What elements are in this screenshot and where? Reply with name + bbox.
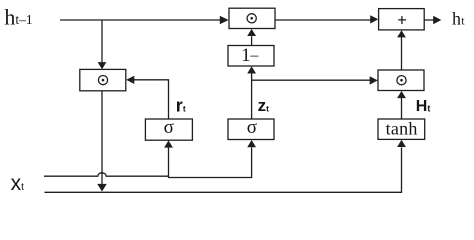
box: 1-minus: [228, 46, 274, 67]
arrowhead into sigma r-gate from below: [164, 140, 173, 147]
arrowhead into top multiply box (h from left): [220, 16, 229, 25]
wire: left multiply box output down to tanh input line: [101, 91, 103, 185]
arrowhead into right multiply box from tanh: [397, 91, 406, 98]
wire: 1-minus box up to top multiply box: [251, 36, 253, 45]
box: right elementwise multiply z*H: [378, 70, 424, 91]
wire: x(t) lower line to tanh box: [45, 147, 402, 192]
svg-text:ht–1: ht–1: [4, 4, 32, 29]
svg-text:rt: rt: [176, 95, 186, 115]
wire: h(t-1) top horizontal line: [60, 19, 220, 21]
arrowhead from left multiply output onto lower x line: [97, 184, 107, 192]
wire: sigma z-gate up to 1-minus box: [251, 74, 253, 119]
svg-text:tanh: tanh: [386, 118, 418, 138]
svg-text:σ: σ: [164, 117, 174, 138]
symbol: circled dot in right multiply box: [397, 76, 406, 85]
wire: z branch to right multiply box: [252, 79, 371, 81]
arrowhead into plus box from left: [370, 15, 378, 23]
symbol: circled dot in top multiply box: [247, 14, 256, 23]
box: left elementwise multiply r*h: [80, 69, 126, 90]
label: plus inside box: [398, 16, 406, 24]
box: sigma z-gate: [228, 119, 274, 140]
arrowhead into top multiply box from 1-minus: [247, 29, 256, 36]
svg-text:1–: 1–: [241, 45, 259, 66]
arrowhead into plus box from right multiply: [397, 30, 406, 37]
box: sigma r-gate: [145, 119, 192, 140]
box: plus (sum): [379, 9, 425, 30]
arrowhead into 1-minus box from sigma z: [247, 66, 256, 73]
arrowhead into sigma z-gate from below: [247, 140, 256, 147]
wire: branch from top line down to reset multiply box: [101, 20, 103, 63]
box: tanh: [378, 119, 425, 139]
svg-text:σ: σ: [247, 117, 257, 138]
wire: sigma r-gate elbow to left multiply box: [134, 80, 169, 119]
box: top elementwise multiply (1-z)*h: [229, 8, 275, 28]
wire: x(t) upper line with hop over vertical: [44, 148, 252, 178]
arrowhead into right multiply box from z branch: [370, 76, 378, 84]
symbol: circled dot in left multiply box: [98, 76, 107, 85]
arrowhead into tanh box from below: [397, 140, 406, 147]
svg-text:zt: zt: [258, 96, 270, 115]
wire: x(t) upper line branch up to sigma r-gate: [168, 148, 170, 177]
arrowhead into left multiply box from top: [98, 62, 107, 69]
svg-text:ht: ht: [452, 9, 465, 29]
wire: right multiply box up to plus box: [401, 37, 403, 70]
wire: top multiply box to plus box: [275, 19, 371, 21]
arrowhead output to h(t): [433, 16, 441, 24]
arrowhead into left multiply box from sigma r elbow: [126, 76, 134, 84]
svg-text:xt: xt: [11, 172, 25, 195]
wire: tanh box up to right multiply box: [401, 98, 403, 119]
svg-text:Ht: Ht: [416, 98, 431, 115]
wire: plus box output to h(t): [424, 19, 434, 21]
